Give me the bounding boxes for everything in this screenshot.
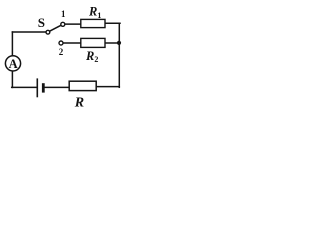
wire top-right (R1 to right rail) [105,22,120,24]
wire R2 to junction [105,42,119,44]
resistor R1 box [81,19,105,27]
wire resistor R to bottom-right corner [96,86,119,88]
junction node dot [117,41,121,45]
svg-text:1: 1 [61,9,66,19]
wire bottom from corner to battery [12,86,37,88]
wire left vertical top (ammeter to top corner) [11,32,13,56]
wire right vertical [118,23,120,87]
battery cell: long plate [36,78,38,97]
svg-text:R2: R2 [85,49,98,64]
wire contact 1 to R1 [65,23,81,25]
svg-text:S: S [38,15,45,30]
wire contact 2 to R2 [63,42,81,44]
svg-text:R: R [74,96,84,110]
switch S pivot [46,30,50,34]
ammeter A1 [5,56,20,71]
switch contact 2 [59,41,63,45]
wire left vertical bottom (ammeter to bottom corner) [11,71,13,87]
switch contact 1 [61,22,65,26]
battery cell: short plate [42,83,45,92]
resistor R2 box [81,38,105,47]
switch S lever [50,25,61,31]
wire top-left horizontal to switch pivot [12,31,46,33]
svg-text:R1: R1 [88,5,101,20]
svg-text:2: 2 [59,47,64,57]
svg-text:A: A [9,57,18,71]
wire battery to resistor R [44,86,69,88]
resistor R box [69,81,96,90]
